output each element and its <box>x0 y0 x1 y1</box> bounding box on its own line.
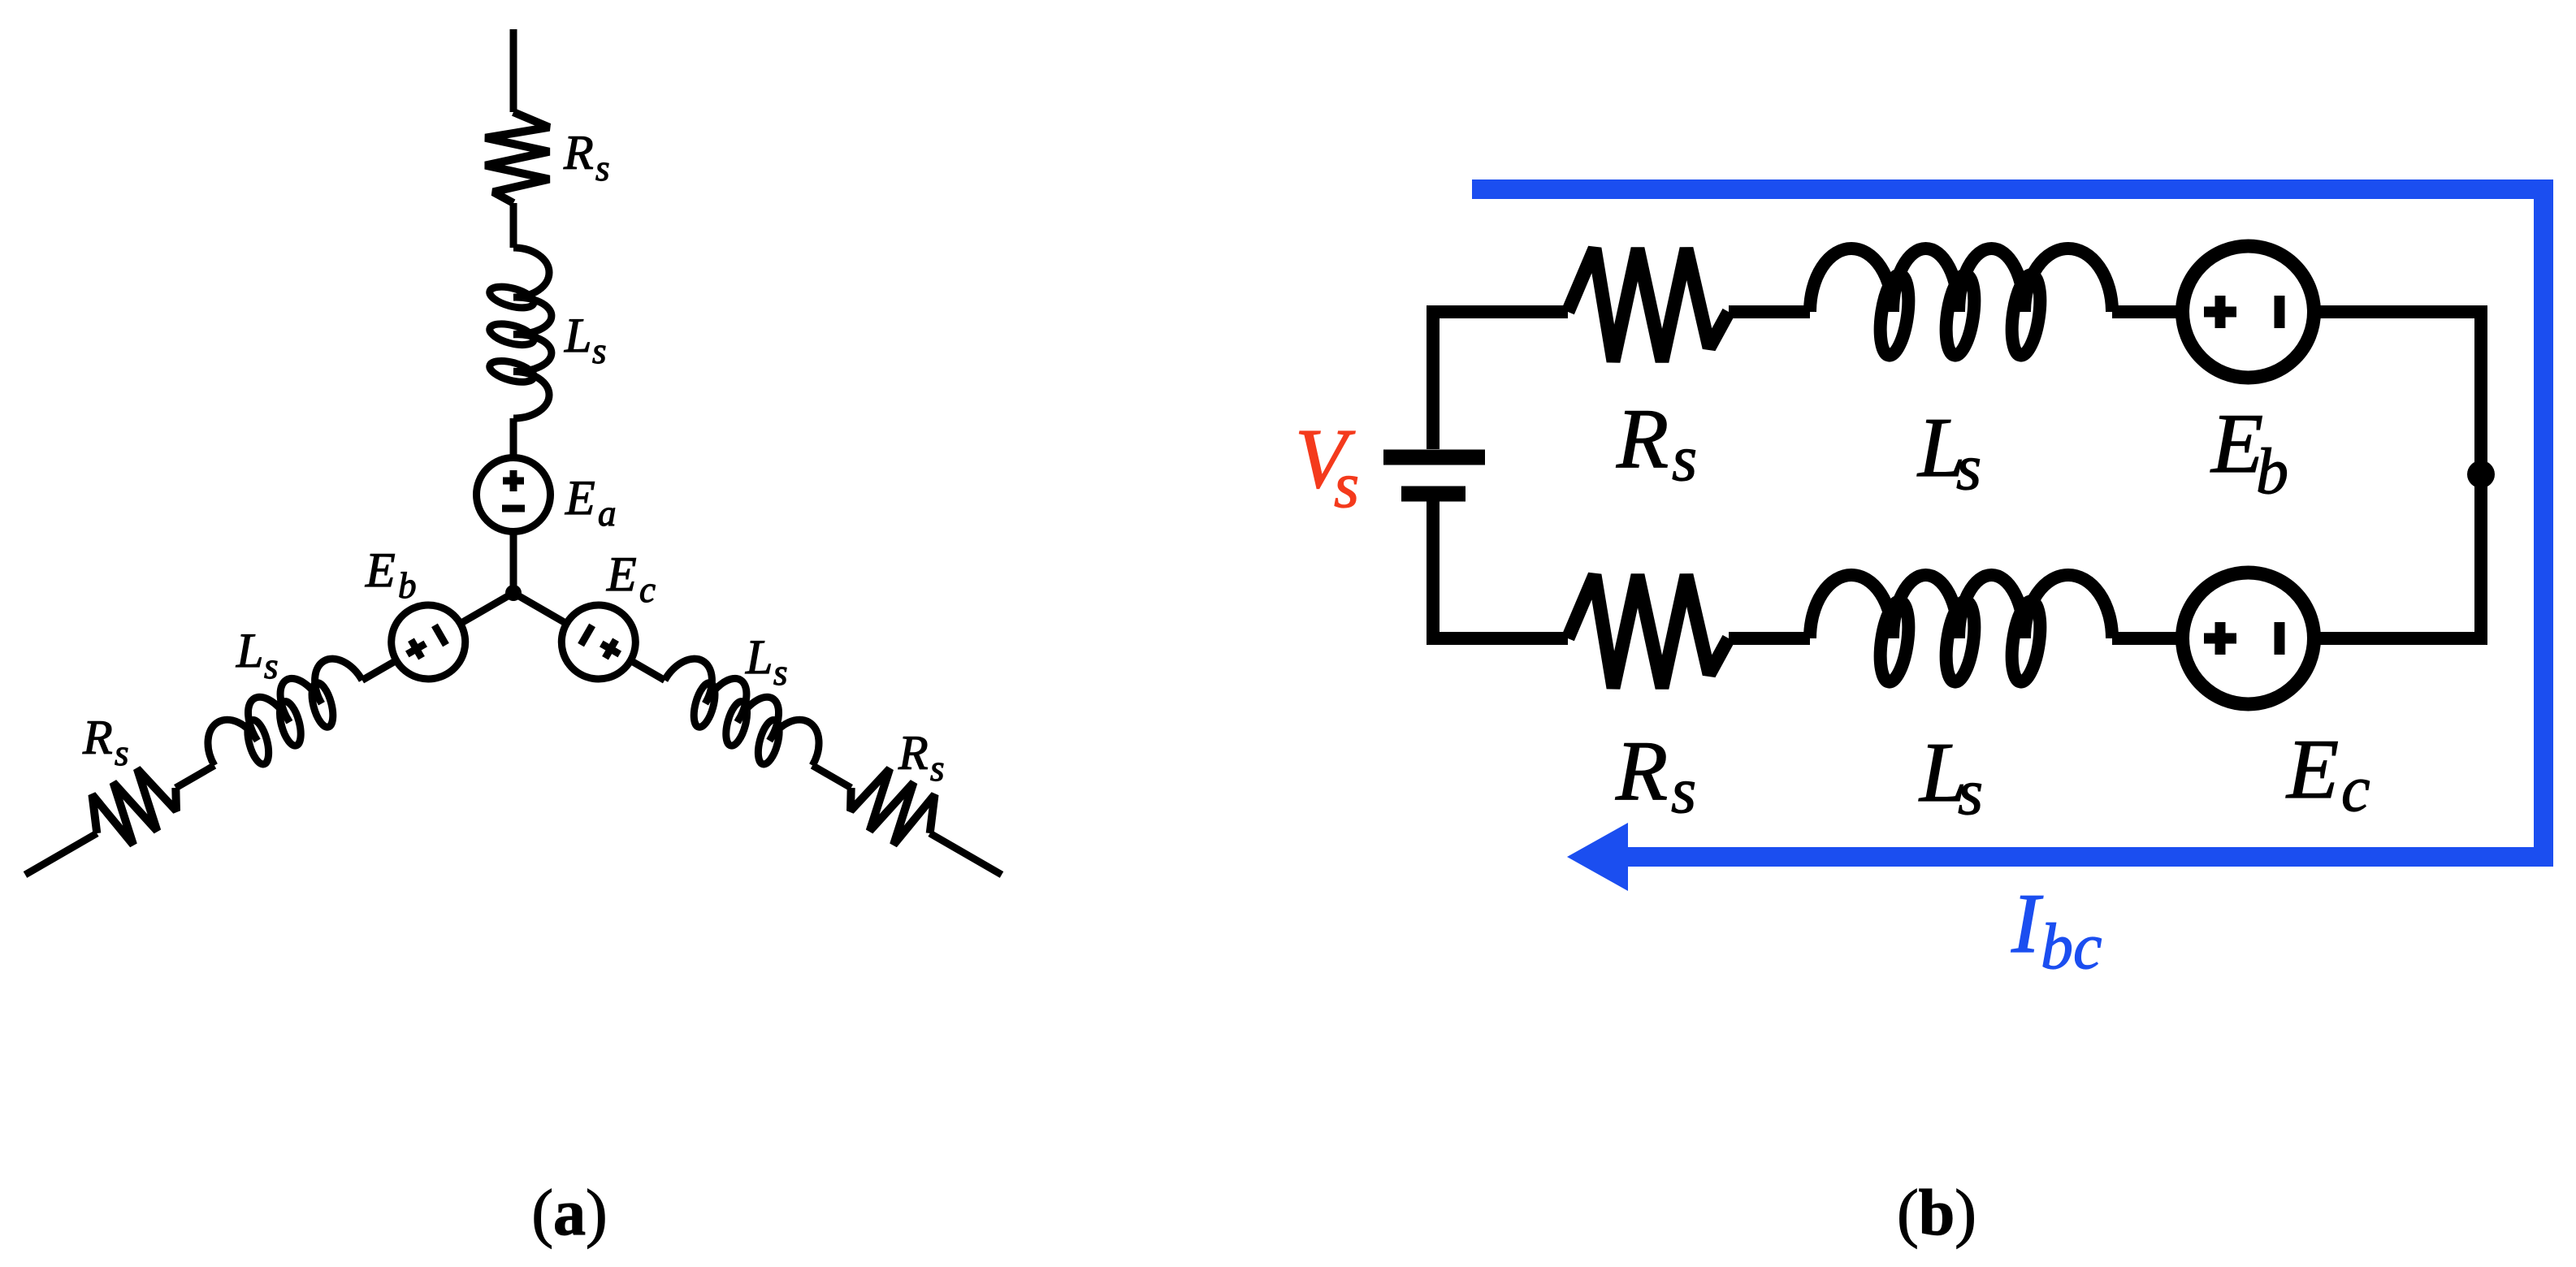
svg-text:s: s <box>115 733 129 773</box>
svg-text:L: L <box>564 309 591 362</box>
svg-text:b: b <box>398 565 417 606</box>
label R_s (bottom branch) <box>1615 723 1696 827</box>
wire <box>510 530 517 593</box>
label E_b (top branch) <box>2210 396 2288 508</box>
svg-text:E: E <box>565 471 595 525</box>
inductor L_s (phase c) <box>652 647 831 788</box>
label L_s (bottom branch) <box>1918 724 1983 828</box>
svg-text:R: R <box>82 711 113 764</box>
wire <box>25 833 97 875</box>
voltage source E_c <box>548 591 649 692</box>
svg-text:s: s <box>264 646 279 686</box>
node: star point junction <box>505 585 522 601</box>
wire <box>630 660 665 680</box>
wire <box>510 29 517 112</box>
label I_bc (blue) <box>2011 876 2102 983</box>
label L_s (phase c) <box>745 630 788 693</box>
wire: left vertical top <box>1433 312 1568 449</box>
svg-text:a: a <box>598 493 617 534</box>
label L_s (top branch) <box>1916 400 1981 504</box>
voltage source E_b <box>378 591 478 692</box>
phase c branch (lower-right, mirror of phase b) <box>495 560 1020 906</box>
phase b branch (lower-left) <box>6 560 532 906</box>
wire <box>510 418 517 458</box>
svg-text:c: c <box>2341 754 2370 825</box>
wire <box>459 593 513 625</box>
svg-text:R: R <box>563 126 594 179</box>
label E_c <box>606 547 656 610</box>
inductor L_s (bottom branch) <box>1810 575 2112 684</box>
phase a branch (vertical) <box>477 29 552 593</box>
svg-text:L: L <box>236 624 263 677</box>
svg-text:s: s <box>1671 755 1696 827</box>
label E_c (bottom branch) <box>2285 721 2370 825</box>
wire <box>2112 632 2182 645</box>
wire: left vertical bottom <box>1433 501 1568 638</box>
resistor R_s (bottom branch) <box>1568 575 1729 688</box>
svg-text:E: E <box>365 543 396 597</box>
svg-text:E: E <box>606 547 637 601</box>
blue arrowhead of I_bc <box>1567 823 1628 891</box>
wire <box>175 766 214 789</box>
resistor R_s (phase a) <box>486 112 550 203</box>
blue current loop wire <box>1472 189 2544 857</box>
wire <box>930 833 1002 875</box>
wire <box>513 593 568 625</box>
label R_s (phase c) <box>898 726 945 789</box>
wire <box>510 203 517 248</box>
wire <box>812 766 851 789</box>
label R_s (top branch) <box>1616 391 1697 495</box>
wire <box>1729 632 1810 645</box>
svg-text:R: R <box>1615 723 1668 818</box>
label L_s (phase b) <box>236 624 279 686</box>
wire <box>2112 305 2182 318</box>
svg-text:(b): (b) <box>1897 1178 1976 1249</box>
inductor L_s (phase a) <box>487 248 552 418</box>
svg-text:R: R <box>1616 391 1669 486</box>
voltage source E_c (bottom branch) <box>2183 573 2314 704</box>
resistor R_s (phase b) <box>79 757 189 858</box>
inductor L_s (top branch) <box>1810 249 2112 357</box>
resistor R_s (top branch) <box>1568 249 1729 361</box>
voltage source E_a <box>477 458 551 532</box>
label V_s (red) <box>1295 411 1359 521</box>
wire <box>2314 312 2481 638</box>
svg-text:s: s <box>1334 450 1359 521</box>
wire <box>1729 305 1810 318</box>
svg-text:c: c <box>639 569 656 610</box>
svg-text:s: s <box>595 148 610 188</box>
svg-text:s: s <box>1672 423 1697 495</box>
label R_s (phase a) <box>563 126 610 188</box>
label L_s (phase a) <box>564 309 607 371</box>
label R_s (phase b) <box>82 711 129 773</box>
svg-text:E: E <box>2285 721 2339 816</box>
svg-text:s: s <box>1958 757 1983 828</box>
svg-text:R: R <box>898 726 929 780</box>
label E_a <box>565 471 617 534</box>
wire <box>362 660 396 680</box>
voltage source E_b (top branch) <box>2183 246 2314 378</box>
svg-text:(a): (a) <box>531 1178 607 1249</box>
svg-text:s: s <box>773 652 788 693</box>
svg-text:L: L <box>745 630 773 684</box>
svg-text:bc: bc <box>2041 911 2102 983</box>
node: junction dot right side <box>2467 461 2495 488</box>
inductor L_s (phase b) <box>195 647 374 788</box>
resistor R_s (phase c) <box>837 757 947 858</box>
svg-text:I: I <box>2011 876 2044 971</box>
label E_b <box>365 543 417 606</box>
svg-text:s: s <box>1956 432 1981 504</box>
battery V_s short plate <box>1401 486 1466 502</box>
svg-text:b: b <box>2256 436 2288 508</box>
svg-text:s: s <box>592 331 607 371</box>
battery V_s long plate <box>1383 450 1485 465</box>
svg-text:s: s <box>930 748 945 789</box>
